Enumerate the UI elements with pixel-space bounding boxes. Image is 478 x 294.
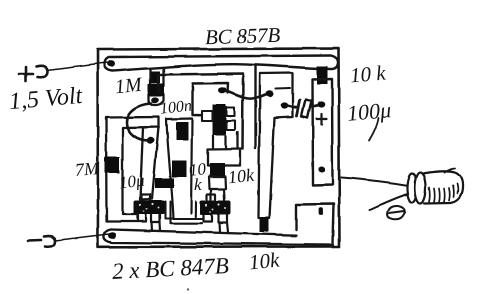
label 10k bottom [248,247,281,275]
resistor 1M body [152,71,161,83]
Q2 leg left [204,215,212,222]
trace C right edge [254,66,256,149]
transistor Q2 BC847B body [200,201,231,215]
Q2 right leg trace down [219,223,228,233]
label 100u [346,97,392,127]
U1 left pad [202,111,213,121]
pad 1M bottom [151,97,159,103]
U1 right pad 1 [227,108,235,117]
trace D vertical [259,74,275,219]
Q1 top leg [142,195,151,201]
transistor U1 BC857B body [213,105,227,136]
Q1 leg left [138,215,146,222]
speck [187,288,189,290]
solder lug [388,206,405,220]
wire output bottom [370,194,409,210]
wire W1 jumper [226,91,267,99]
label 10k top right [349,60,387,88]
Q2 top leg [207,195,216,201]
output pad block bottom right [296,204,334,244]
label 1,5 Volt [8,83,83,116]
wire + lead [47,63,108,71]
Q2 leg right [218,215,227,223]
trace inner left [193,84,213,116]
link U trace Q1-Q2 [166,202,203,224]
earphone body [423,171,463,203]
1M stub trace [151,69,164,87]
U1 right pad 2 [227,121,236,131]
ground rail (bottom trace) [104,229,334,245]
earphone flick [445,169,455,173]
trace region R1 outline [158,74,243,150]
+ supply rail (top trace) [104,56,338,72]
pad + rail [107,60,115,67]
trace D inner line [276,87,291,90]
pad 100u bottom [318,167,325,173]
pad under 10k [209,177,226,201]
board outline [98,49,340,247]
label 7M [74,158,100,181]
pad output [319,208,324,216]
wire W2 to capacitor [287,106,297,108]
resistor 10k mid body [210,163,226,177]
earphone rim [407,174,417,203]
trace E left vertical [106,117,159,222]
resistor on trace D bottom body [260,217,270,233]
minus terminal hook [44,236,55,247]
mu tail of 100u label [369,118,379,141]
pad cap + [318,101,326,107]
resistor body on trace B [172,161,187,178]
100u plus mark [317,114,327,125]
resistor 10k top right body [317,66,328,85]
capacitor ceramic plate 2 [302,100,312,119]
speck [242,36,244,38]
trace A center-left vertical [140,127,159,200]
trace R1 inner boundary [193,83,229,93]
trace D top hook [260,73,293,118]
pad W2 left [280,102,288,108]
speck [155,265,157,267]
wire W2 right [311,106,318,108]
trace C to collector step [208,133,243,166]
capacitor ceramic plate 1 [297,101,300,117]
earphone hatch [429,184,458,203]
resistor 7M body [105,157,120,174]
capacitor 100n body [176,122,188,140]
resistor 10u bridge horizontal [155,178,174,188]
plus terminal hook [36,66,48,77]
jumper arc J1 [127,104,152,141]
minus sign [28,239,41,242]
pad node A [147,137,155,143]
label 100n [159,97,193,118]
label BC 857B [205,23,281,51]
label 10k right-mid [227,165,255,189]
trace B lower vertical [167,119,193,219]
wire output top [341,178,408,186]
Q1 leg right [152,215,161,223]
plus sign [19,67,33,81]
capacitor 100u electrolytic outline [313,79,333,185]
U1 top pin pad [219,87,227,94]
label 10 k mid [188,159,207,181]
pad W1 right [266,90,274,96]
transistor Q1 BC847B body [134,201,166,215]
label 1M [114,74,143,100]
collector stub lines [213,136,226,150]
Q1 right leg trace down [152,222,161,231]
label 2x BC 847B [111,253,229,285]
pad - rail [109,232,117,239]
wire - lead [55,234,110,241]
label 10u [118,171,146,194]
